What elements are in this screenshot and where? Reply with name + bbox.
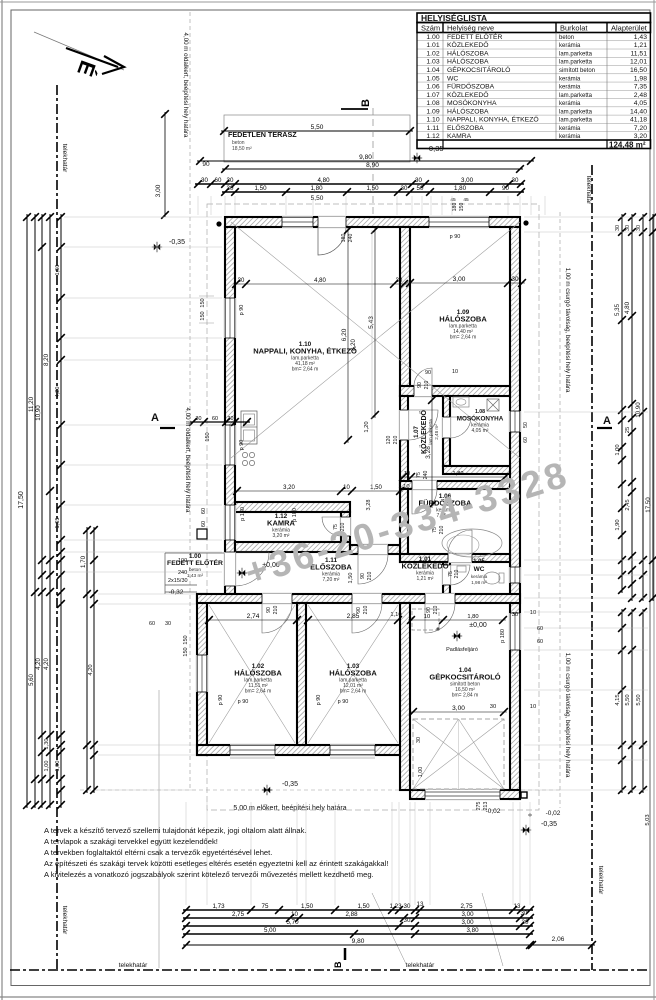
svg-text:p 180: p 180 <box>500 629 506 643</box>
svg-text:beton: beton <box>559 35 574 41</box>
svg-text:1,00 m csurgó távolság, beépít: 1,00 m csurgó távolság, beépítési hely h… <box>564 653 571 778</box>
svg-text:4,80: 4,80 <box>317 177 330 184</box>
svg-text:3,20: 3,20 <box>283 485 295 491</box>
svg-text:MOSÓKONYHA: MOSÓKONYHA <box>447 98 497 107</box>
svg-text:KÖZLEKEDŐ: KÖZLEKEDŐ <box>401 562 448 571</box>
svg-text:30: 30 <box>227 185 234 192</box>
svg-text:30: 30 <box>490 704 496 710</box>
svg-text:90: 90 <box>426 607 432 613</box>
svg-text:150: 150 <box>459 203 465 212</box>
svg-text:60: 60 <box>537 626 543 632</box>
svg-text:1,50: 1,50 <box>357 903 370 910</box>
property boundary telekhatár bottom <box>10 969 650 971</box>
property boundary telekhatár left <box>56 85 58 970</box>
svg-text:HÁLÓSZOBA: HÁLÓSZOBA <box>447 48 489 57</box>
svg-text:60: 60 <box>523 437 529 443</box>
svg-text:FEDETT ELŐTÉR: FEDETT ELŐTÉR <box>447 32 502 41</box>
svg-text:30: 30 <box>615 225 621 231</box>
svg-text:KÖZLEKEDŐ: KÖZLEKEDŐ <box>447 40 489 49</box>
svg-text:3,28: 3,28 <box>425 446 432 459</box>
svg-text:1.12: 1.12 <box>426 133 439 140</box>
svg-text:2,06: 2,06 <box>552 936 565 943</box>
svg-text:HÁLÓSZOBA: HÁLÓSZOBA <box>447 57 489 66</box>
svg-text:30: 30 <box>521 910 528 917</box>
svg-text:HÁLÓSZOBA: HÁLÓSZOBA <box>447 106 489 115</box>
svg-text:Szám: Szám <box>421 24 440 33</box>
svg-text:30: 30 <box>404 917 411 924</box>
svg-text:10: 10 <box>452 369 458 375</box>
svg-text:kerámia: kerámia <box>559 134 581 140</box>
svg-text:12,01: 12,01 <box>630 59 647 66</box>
svg-text:1,73: 1,73 <box>212 903 225 910</box>
svg-text:GÉPKOCSITÁROLÓ: GÉPKOCSITÁROLÓ <box>429 673 500 682</box>
svg-text:HÁLÓSZOBA: HÁLÓSZOBA <box>329 669 377 678</box>
svg-text:A: A <box>603 415 611 427</box>
svg-text:3,00: 3,00 <box>453 276 466 283</box>
svg-text:-0,35: -0,35 <box>541 821 557 828</box>
svg-text:1,43 m²: 1,43 m² <box>187 573 204 579</box>
svg-text:A: A <box>151 412 159 424</box>
svg-text:11,51: 11,51 <box>630 50 647 57</box>
svg-text:150: 150 <box>200 298 206 307</box>
svg-text:30: 30 <box>238 278 245 284</box>
svg-text:60: 60 <box>537 639 543 645</box>
svg-text:telekhatár: telekhatár <box>585 176 592 205</box>
svg-text:3,80: 3,80 <box>466 927 479 934</box>
svg-text:4,05 m²: 4,05 m² <box>472 428 489 434</box>
svg-text:1,10: 1,10 <box>390 612 401 618</box>
svg-text:1,00: 1,00 <box>615 444 621 455</box>
svg-text:30: 30 <box>228 416 234 422</box>
svg-text:16,50: 16,50 <box>630 67 647 74</box>
svg-text:B: B <box>360 99 372 107</box>
property boundary telekhatár right <box>591 165 593 970</box>
svg-text:3,00: 3,00 <box>461 919 474 926</box>
svg-text:telekhatár: telekhatár <box>119 962 148 969</box>
svg-text:4,20: 4,20 <box>36 658 42 670</box>
svg-text:5,00 m előkert, beépítési hely: 5,00 m előkert, beépítési hely határa <box>233 805 346 812</box>
svg-text:10: 10 <box>291 911 298 918</box>
svg-text:Burkolat: Burkolat <box>560 24 588 33</box>
svg-text:30: 30 <box>512 177 519 184</box>
svg-text:4,20: 4,20 <box>88 664 94 675</box>
svg-text:NAPPALI, KONYHA, ÉTKEZŐ: NAPPALI, KONYHA, ÉTKEZŐ <box>253 347 357 356</box>
svg-text:210: 210 <box>367 572 373 581</box>
svg-text:10,90: 10,90 <box>635 402 642 418</box>
svg-text:60: 60 <box>149 621 155 627</box>
svg-text:Az építészeti és szakági terve: Az építészeti és szakági tervek közötti … <box>44 859 388 868</box>
right dimension chains <box>621 214 623 593</box>
room list table HELYISÉGLISTA <box>417 13 651 23</box>
svg-text:Alapterület: Alapterület <box>611 24 648 33</box>
svg-text:1.00: 1.00 <box>426 34 439 41</box>
svg-text:±0,00: ±0,00 <box>469 622 487 629</box>
svg-text:p 90: p 90 <box>338 699 349 705</box>
svg-text:KÖZLEKEDŐ: KÖZLEKEDŐ <box>447 90 489 99</box>
svg-text:KAMRA: KAMRA <box>447 133 472 140</box>
svg-text:50: 50 <box>523 422 529 428</box>
svg-text:1.09: 1.09 <box>426 108 439 115</box>
svg-text:30: 30 <box>196 416 202 422</box>
svg-text:11,20: 11,20 <box>28 396 35 412</box>
svg-text:HÁLÓSZOBA: HÁLÓSZOBA <box>439 315 487 324</box>
svg-text:45: 45 <box>450 197 456 203</box>
svg-text:p 180: p 180 <box>240 507 246 521</box>
svg-text:p 90: p 90 <box>316 695 322 706</box>
svg-text:100: 100 <box>178 558 187 564</box>
svg-text:bm= 2,84 m: bm= 2,84 m <box>452 693 479 699</box>
svg-text:lam.parketta: lam.parketta <box>559 93 593 99</box>
svg-text:3,28: 3,28 <box>366 500 372 511</box>
svg-text:120: 120 <box>386 436 392 445</box>
svg-text:1,80: 1,80 <box>467 614 478 620</box>
svg-text:2,48 m²: 2,48 m² <box>434 424 439 440</box>
svg-text:bm= 2,64 m: bm= 2,64 m <box>292 367 319 373</box>
svg-text:2,85: 2,85 <box>347 613 360 620</box>
svg-text:A tervlapok a szakági tervekke: A tervlapok a szakági tervekkel együtt k… <box>44 837 218 846</box>
svg-text:4,20: 4,20 <box>55 387 61 398</box>
svg-text:NAPPALI, KONYHA, ÉTKEZŐ: NAPPALI, KONYHA, ÉTKEZŐ <box>447 115 539 124</box>
svg-text:17,50: 17,50 <box>645 497 652 513</box>
svg-text:30: 30 <box>401 185 408 192</box>
svg-text:1,23: 1,23 <box>389 903 402 910</box>
svg-text:3,20 m²: 3,20 m² <box>273 533 290 539</box>
svg-text:1.06: 1.06 <box>426 84 439 91</box>
svg-text:5,50: 5,50 <box>636 694 642 705</box>
svg-text:5,60: 5,60 <box>29 674 35 686</box>
svg-text:30: 30 <box>625 225 631 231</box>
svg-text:210: 210 <box>273 606 279 615</box>
svg-text:2,75: 2,75 <box>232 911 245 918</box>
wall: south bedrooms <box>197 745 410 755</box>
svg-text:-0,32: -0,32 <box>169 589 184 596</box>
svg-text:1.05: 1.05 <box>426 75 439 82</box>
svg-text:60: 60 <box>201 508 207 514</box>
svg-text:1.07: 1.07 <box>426 92 439 99</box>
svg-text:p 90: p 90 <box>239 440 245 451</box>
svg-text:180: 180 <box>341 234 347 243</box>
svg-text:telekhatár: telekhatár <box>597 866 604 895</box>
svg-text:30: 30 <box>636 225 642 231</box>
svg-text:telekhatár: telekhatár <box>61 144 68 173</box>
svg-text:30: 30 <box>511 276 519 283</box>
svg-text:1,00: 1,00 <box>44 761 50 772</box>
svg-text:B: B <box>333 961 343 968</box>
svg-text:45: 45 <box>463 197 469 203</box>
svg-text:1,80: 1,80 <box>310 185 323 192</box>
svg-text:8,20: 8,20 <box>43 353 50 366</box>
wall: central spine <box>197 594 520 603</box>
svg-text:1,21: 1,21 <box>634 42 647 49</box>
svg-text:ELŐSZOBA: ELŐSZOBA <box>447 123 484 132</box>
svg-text:p 180: p 180 <box>292 508 298 522</box>
svg-text:2,45: 2,45 <box>625 499 631 510</box>
svg-text:1,50: 1,50 <box>254 185 267 192</box>
svg-text:30: 30 <box>512 612 518 618</box>
svg-text:kerámia: kerámia <box>559 43 581 49</box>
svg-text:3,20: 3,20 <box>634 133 647 140</box>
svg-text:A tervek a készítő tervező sze: A tervek a készítő tervező szellemi tula… <box>44 826 307 835</box>
svg-text:14,40: 14,40 <box>630 108 647 115</box>
terrace FEDETLEN TERASZ <box>224 115 410 162</box>
svg-text:41,18: 41,18 <box>630 117 647 124</box>
svg-text:1,80: 1,80 <box>453 471 464 477</box>
svg-text:90: 90 <box>417 382 423 388</box>
svg-text:2x15/30: 2x15/30 <box>168 578 188 584</box>
svg-text:lam.parketta: lam.parketta <box>559 60 593 66</box>
wall: west exterior lower <box>197 594 207 755</box>
svg-text:1.08: 1.08 <box>426 100 439 107</box>
svg-text:kerámia: kerámia <box>559 126 581 132</box>
svg-text:lam.parketta: lam.parketta <box>559 118 593 124</box>
svg-text:simított beton: simított beton <box>559 68 595 74</box>
svg-text:1,98 m²: 1,98 m² <box>471 580 487 585</box>
svg-text:1,65: 1,65 <box>55 518 61 529</box>
svg-text:HELYISÉGLISTA: HELYISÉGLISTA <box>421 13 487 23</box>
svg-text:bm= 2,64 m: bm= 2,64 m <box>340 689 367 695</box>
svg-text:30: 30 <box>201 177 208 184</box>
svg-text:1,50: 1,50 <box>301 903 314 910</box>
svg-text:kerámia: kerámia <box>471 574 488 579</box>
svg-text:1.04: 1.04 <box>426 67 439 74</box>
svg-text:240: 240 <box>348 234 354 243</box>
svg-text:1,21 m²: 1,21 m² <box>417 576 434 582</box>
svg-text:210: 210 <box>433 606 439 615</box>
svg-text:5,50: 5,50 <box>625 694 631 705</box>
svg-text:75: 75 <box>416 472 422 478</box>
svg-text:1,10: 1,10 <box>398 484 409 490</box>
svg-text:4,00 m oldalkert, beépítési he: 4,00 m oldalkert, beépítési hely határa <box>182 33 189 138</box>
bottom dimension chains <box>372 893 407 966</box>
wall: west exterior upper <box>225 227 235 594</box>
svg-text:50: 50 <box>417 185 424 192</box>
svg-text:1,50: 1,50 <box>348 573 354 584</box>
svg-text:-0,02: -0,02 <box>546 810 561 817</box>
svg-text:210: 210 <box>424 381 430 390</box>
svg-text:1.11: 1.11 <box>427 125 440 132</box>
svg-text:1,90: 1,90 <box>615 519 621 530</box>
svg-text:1.03: 1.03 <box>426 59 439 66</box>
north arrow É <box>34 32 124 70</box>
svg-text:2,75: 2,75 <box>460 903 473 910</box>
svg-text:8,20: 8,20 <box>351 339 357 351</box>
svg-text:kerámia: kerámia <box>559 101 581 107</box>
svg-text:10: 10 <box>424 614 430 620</box>
svg-text:150: 150 <box>183 647 189 656</box>
svg-text:210: 210 <box>363 606 369 615</box>
svg-text:150: 150 <box>205 432 211 441</box>
svg-text:5,00: 5,00 <box>264 927 277 934</box>
svg-text:4,00 m oldalkert, beépítési he: 4,00 m oldalkert, beépítési hely határa <box>184 408 191 513</box>
svg-text:A kivitelezés a vonatkozó jogs: A kivitelezés a vonatkozó jogszabályok s… <box>44 870 374 879</box>
svg-text:2,74: 2,74 <box>247 613 260 620</box>
svg-text:HÁLÓSZOBA: HÁLÓSZOBA <box>234 669 282 678</box>
svg-text:90: 90 <box>360 573 366 579</box>
svg-text:1,00 m csurgó távolság, beépít: 1,00 m csurgó távolság, beépítési hely h… <box>564 268 571 393</box>
svg-text:p 90: p 90 <box>238 699 249 705</box>
svg-text:30: 30 <box>522 919 529 926</box>
svg-text:1.01: 1.01 <box>426 42 439 49</box>
page frame <box>1 0 3 1000</box>
svg-text:1,70: 1,70 <box>80 555 87 568</box>
svg-text:5,03: 5,03 <box>645 814 651 825</box>
svg-text:30: 30 <box>416 737 422 743</box>
svg-text:WC: WC <box>447 75 458 82</box>
svg-text:60: 60 <box>201 521 207 527</box>
svg-text:75: 75 <box>262 903 269 910</box>
svg-text:Padlásfeljáró: Padlásfeljáró <box>446 647 478 653</box>
svg-text:3,00: 3,00 <box>461 911 474 918</box>
wall: north exterior <box>225 217 520 227</box>
svg-text:30: 30 <box>396 278 403 284</box>
svg-text:17,50: 17,50 <box>18 491 25 509</box>
svg-text:3,00: 3,00 <box>155 184 162 197</box>
svg-text:240: 240 <box>423 471 429 480</box>
svg-text:7,20 m²: 7,20 m² <box>323 577 340 583</box>
svg-text:telekhatár: telekhatár <box>406 962 435 969</box>
svg-text:30: 30 <box>165 621 171 627</box>
svg-text:p 90: p 90 <box>450 234 461 240</box>
svg-text:1.02: 1.02 <box>426 50 439 57</box>
svg-text:275: 275 <box>476 802 482 811</box>
svg-text:2,88: 2,88 <box>345 911 358 918</box>
svg-text:A tervekben foglaltaktól eltér: A tervekben foglaltaktól eltérni csak a … <box>44 848 272 857</box>
svg-text:10: 10 <box>530 704 536 710</box>
svg-text:1,00: 1,00 <box>418 767 424 778</box>
svg-text:1,50: 1,50 <box>55 265 61 276</box>
svg-text:lam.parketta: lam.parketta <box>559 109 593 115</box>
svg-text:150: 150 <box>183 635 189 644</box>
svg-text:lam.parketta: lam.parketta <box>559 51 593 57</box>
svg-text:150: 150 <box>200 311 206 320</box>
svg-text:30: 30 <box>227 177 234 184</box>
svg-text:13: 13 <box>417 901 424 908</box>
svg-text:MOSÓKONYHA: MOSÓKONYHA <box>457 414 504 423</box>
svg-text:bm= 2,64 m: bm= 2,64 m <box>245 689 272 695</box>
svg-text:10,90: 10,90 <box>35 405 42 421</box>
svg-text:1.00: 1.00 <box>189 553 202 560</box>
svg-text:3,00: 3,00 <box>461 177 474 184</box>
svg-text:30: 30 <box>415 177 422 184</box>
svg-text:124,48 m²: 124,48 m² <box>609 140 646 149</box>
svg-text:p 90: p 90 <box>218 695 224 706</box>
roof overhang outline <box>207 204 539 810</box>
left dimension chains <box>26 214 28 808</box>
svg-text:4,05: 4,05 <box>634 100 647 107</box>
svg-text:1,80: 1,80 <box>454 185 467 192</box>
svg-text:WC: WC <box>474 566 485 573</box>
svg-text:4,80: 4,80 <box>624 301 631 314</box>
svg-text:5,43: 5,43 <box>368 316 375 329</box>
svg-text:10: 10 <box>343 485 350 491</box>
svg-text:6,20: 6,20 <box>341 328 348 341</box>
svg-text:9,80: 9,80 <box>359 154 372 161</box>
svg-text:9,80: 9,80 <box>352 938 365 945</box>
svg-text:kerámia: kerámia <box>559 76 581 82</box>
svg-text:7,20: 7,20 <box>634 125 647 132</box>
svg-text:90: 90 <box>356 607 362 613</box>
svg-text:-0,35: -0,35 <box>282 781 298 788</box>
svg-text:60: 60 <box>212 416 218 422</box>
svg-text:210: 210 <box>454 570 460 579</box>
svg-text:1,20: 1,20 <box>364 421 370 432</box>
svg-text:10: 10 <box>404 471 410 477</box>
svg-text:180: 180 <box>452 203 458 212</box>
windows and doors <box>282 216 313 227</box>
svg-text:4,20: 4,20 <box>44 658 50 670</box>
svg-text:90: 90 <box>425 370 431 376</box>
svg-text:1.08: 1.08 <box>475 409 485 415</box>
svg-text:1,00: 1,00 <box>55 761 61 772</box>
svg-text:kerámia: kerámia <box>559 85 581 91</box>
svg-text:-0,35: -0,35 <box>426 144 443 153</box>
svg-text:210: 210 <box>393 436 399 445</box>
svg-text:213: 213 <box>483 802 489 811</box>
svg-text:90: 90 <box>202 161 210 168</box>
svg-text:4,15: 4,15 <box>615 694 621 705</box>
svg-text:p 90: p 90 <box>239 305 245 316</box>
wall: south garage <box>410 790 520 799</box>
svg-text:60: 60 <box>215 177 222 184</box>
svg-text:5,50: 5,50 <box>311 124 324 131</box>
svg-text:90: 90 <box>502 185 509 192</box>
svg-text:-0,35: -0,35 <box>169 239 185 246</box>
svg-text:7,35: 7,35 <box>634 84 647 91</box>
svg-text:5,70: 5,70 <box>286 919 299 926</box>
svg-text:1.10: 1.10 <box>426 117 439 124</box>
wall: east exterior <box>510 227 520 799</box>
svg-text:2,48: 2,48 <box>634 92 647 99</box>
svg-text:GÉPKOCSITÁROLÓ: GÉPKOCSITÁROLÓ <box>447 65 510 74</box>
svg-text:4,80: 4,80 <box>314 278 326 284</box>
svg-text:1.05: 1.05 <box>473 559 485 565</box>
svg-text:5,35: 5,35 <box>614 303 621 316</box>
svg-text:Helyiség neve: Helyiség neve <box>447 24 494 33</box>
svg-text:90: 90 <box>266 607 272 613</box>
svg-text:telekhatár: telekhatár <box>61 906 68 935</box>
svg-text:1.07: 1.07 <box>414 426 420 438</box>
svg-text:240: 240 <box>178 570 187 576</box>
svg-text:3,00: 3,00 <box>452 705 465 712</box>
svg-text:bm= 2,64 m: bm= 2,64 m <box>450 335 477 341</box>
svg-text:1,30: 1,30 <box>44 739 50 750</box>
svg-text:FEDETT ELŐTÉR: FEDETT ELŐTÉR <box>167 558 223 567</box>
svg-text:25: 25 <box>625 427 631 433</box>
svg-text:1,98: 1,98 <box>634 75 647 82</box>
svg-text:1,43: 1,43 <box>634 34 647 41</box>
svg-text:FÜRDŐSZOBA: FÜRDŐSZOBA <box>447 82 495 91</box>
svg-text:10: 10 <box>530 610 536 616</box>
svg-text:18,50 m²: 18,50 m² <box>232 146 252 152</box>
svg-text:5,50: 5,50 <box>311 195 324 202</box>
